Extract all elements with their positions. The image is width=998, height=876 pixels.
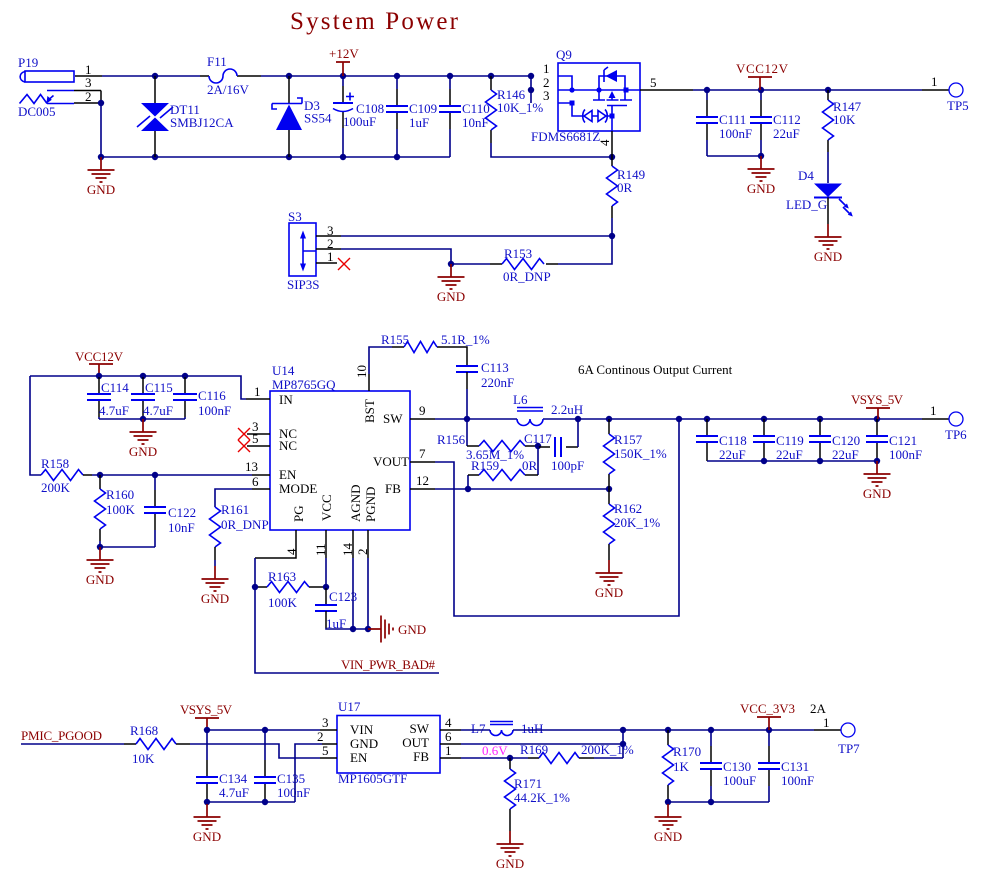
svg-text:2: 2 xyxy=(317,729,324,744)
power symbol +12V xyxy=(329,46,359,76)
resistor R153 xyxy=(490,246,558,284)
ground GND (S3) xyxy=(437,264,465,304)
junction dot R160/C122 gnd xyxy=(97,544,103,550)
wire R155 to C113 xyxy=(449,347,467,366)
svg-text:R160: R160 xyxy=(106,487,134,502)
svg-text:R156: R156 xyxy=(437,432,466,447)
capacitor C115 xyxy=(131,376,173,419)
svg-text:R159: R159 xyxy=(471,458,499,473)
junction dots output gnd rail xyxy=(761,458,880,464)
ground GND (R162) xyxy=(595,560,623,600)
svg-text:3: 3 xyxy=(85,75,92,90)
svg-text:C121: C121 xyxy=(889,433,917,448)
svg-text:100K: 100K xyxy=(106,502,136,517)
connector P19 xyxy=(18,55,102,119)
wire U17 GND pin down xyxy=(295,744,322,802)
capacitor C112 xyxy=(707,90,801,156)
svg-text:R158: R158 xyxy=(41,456,69,471)
svg-text:FDMS6681Z: FDMS6681Z xyxy=(531,129,600,144)
svg-text:U14: U14 xyxy=(272,363,295,378)
wire R161 to gnd xyxy=(214,560,216,566)
svg-text:14: 14 xyxy=(340,543,355,557)
wire R146 to Q9 gate xyxy=(491,143,612,157)
svg-text:VCC12V: VCC12V xyxy=(75,349,124,364)
resistor R157 xyxy=(604,419,667,489)
svg-text:F11: F11 xyxy=(207,54,227,69)
wire FB net xyxy=(435,488,609,490)
wire output cap ground rail xyxy=(707,460,877,462)
svg-text:44.2K_1%: 44.2K_1% xyxy=(514,790,570,805)
pin lead Q9 pin4 xyxy=(611,131,613,157)
svg-text:C118: C118 xyxy=(719,433,747,448)
svg-text:TP7: TP7 xyxy=(838,741,860,756)
junction dots 3V3 gnd rail xyxy=(665,799,714,805)
wire top +12V rail xyxy=(102,76,531,103)
wire AGND/PGND drops xyxy=(353,558,368,629)
svg-text:7: 7 xyxy=(419,446,426,461)
wire VCC12V rail to U14 IN xyxy=(30,376,246,399)
resistor R169 xyxy=(520,742,634,764)
svg-text:VIN_PWR_BAD#: VIN_PWR_BAD# xyxy=(341,657,436,672)
svg-text:10: 10 xyxy=(354,365,369,378)
wire MODE to R161 xyxy=(215,489,252,507)
ground GND (R170/C130) xyxy=(654,804,682,844)
svg-text:150K_1%: 150K_1% xyxy=(614,446,667,461)
power symbol VCC12V xyxy=(736,61,789,90)
svg-text:R155: R155 xyxy=(381,332,409,347)
wire PMIC_PGOOD to R168 xyxy=(21,743,124,745)
junction dots FB net xyxy=(465,486,612,492)
svg-text:C114: C114 xyxy=(101,380,129,395)
svg-text:2: 2 xyxy=(355,549,370,556)
wire S3 pin2 to ground xyxy=(341,249,490,264)
ground GND (R171) xyxy=(496,831,524,871)
capacitor C116 xyxy=(173,376,231,419)
capacitor C117 xyxy=(524,419,584,473)
ground GND (R161) xyxy=(201,566,229,606)
svg-text:VOUT: VOUT xyxy=(373,454,409,469)
svg-text:EN: EN xyxy=(279,467,297,482)
svg-text:C113: C113 xyxy=(481,360,509,375)
wire R149 to R153/S3 xyxy=(558,218,612,264)
svg-text:220nF: 220nF xyxy=(481,375,514,390)
svg-text:MP1605GTF: MP1605GTF xyxy=(338,771,407,786)
capacitor C111 xyxy=(696,90,752,156)
resistor R158 xyxy=(41,456,92,495)
svg-text:6: 6 xyxy=(445,729,452,744)
no-connect X on U14 pin3 xyxy=(238,428,250,440)
pin lead Q9 pin5 xyxy=(640,89,693,91)
svg-text:L6: L6 xyxy=(513,392,528,407)
junction dots VCC12V mid rail xyxy=(96,373,188,379)
svg-text:NC: NC xyxy=(279,438,297,453)
svg-text:100nF: 100nF xyxy=(198,403,231,418)
IC U14 MP8765GQ xyxy=(246,363,435,558)
svg-text:C122: C122 xyxy=(168,505,196,520)
svg-text:VIN: VIN xyxy=(350,722,374,737)
svg-text:SW: SW xyxy=(383,411,403,426)
svg-text:+12V: +12V xyxy=(329,46,359,61)
capacitor C108 (polarized 100uF) xyxy=(333,76,384,157)
ground GND (C134) xyxy=(193,804,221,844)
ground GND (R160) xyxy=(86,547,114,587)
junction dots 3V3 rail xyxy=(620,727,772,733)
svg-text:100K: 100K xyxy=(268,595,298,610)
resistor R159 xyxy=(468,446,538,489)
svg-text:FB: FB xyxy=(413,749,429,764)
svg-text:IN: IN xyxy=(279,392,293,407)
junction dot gate node xyxy=(609,154,615,160)
junction dots VCC12V node xyxy=(704,87,831,159)
svg-text:4.7uF: 4.7uF xyxy=(219,785,249,800)
wire S3 pin3 to gate node xyxy=(341,235,612,237)
svg-text:C112: C112 xyxy=(773,112,801,127)
ground GND (input caps) xyxy=(129,419,157,459)
svg-text:S3: S3 xyxy=(288,209,302,224)
svg-text:22uF: 22uF xyxy=(773,126,800,141)
svg-text:1uH: 1uH xyxy=(521,721,543,736)
svg-text:PMIC_PGOOD: PMIC_PGOOD xyxy=(21,728,102,743)
wire VCC pin to C123 xyxy=(325,558,327,588)
LED D4 LED_G xyxy=(786,152,853,224)
svg-text:11: 11 xyxy=(313,543,328,556)
wire R158 to EN xyxy=(92,474,252,476)
svg-text:C130: C130 xyxy=(723,759,751,774)
svg-text:C119: C119 xyxy=(776,433,804,448)
svg-text:100uF: 100uF xyxy=(343,114,376,129)
svg-text:C117: C117 xyxy=(524,431,552,446)
capacitor C110 xyxy=(439,76,490,157)
svg-text:100nF: 100nF xyxy=(889,447,922,462)
junction dot S3 pin3 tap xyxy=(609,233,615,239)
svg-text:R163: R163 xyxy=(268,569,296,584)
resistor R149 xyxy=(607,157,646,218)
junction dots AGND PGND xyxy=(350,626,371,632)
wire VCC12V rail to R158 xyxy=(30,376,41,475)
svg-text:DC005: DC005 xyxy=(18,104,56,119)
svg-text:1: 1 xyxy=(931,74,938,89)
wire Q9 output to TP5 xyxy=(693,89,922,91)
junction dots input rails xyxy=(98,73,534,160)
svg-text:4.7uF: 4.7uF xyxy=(99,403,129,418)
svg-text:C131: C131 xyxy=(781,759,809,774)
resistor R170 xyxy=(663,730,702,802)
svg-text:PG: PG xyxy=(291,505,306,522)
resistor R156 xyxy=(437,419,538,462)
ground GND (C111 C112) xyxy=(747,156,775,196)
svg-text:C120: C120 xyxy=(832,433,860,448)
svg-text:D4: D4 xyxy=(798,168,814,183)
svg-text:3: 3 xyxy=(322,715,329,730)
svg-text:VSYS_5V: VSYS_5V xyxy=(851,392,904,407)
svg-text:R168: R168 xyxy=(130,723,158,738)
svg-text:EN: EN xyxy=(350,750,368,765)
svg-text:VSYS_5V: VSYS_5V xyxy=(180,702,233,717)
svg-text:C116: C116 xyxy=(198,388,226,403)
test point TP5 xyxy=(931,74,969,113)
diode D3 SS54 xyxy=(272,76,332,157)
svg-text:12: 12 xyxy=(416,473,429,488)
capacitor C122 xyxy=(144,475,196,547)
no-connect X on S3 pin1 xyxy=(338,258,350,270)
inductor L6 xyxy=(513,392,583,426)
svg-text:10K: 10K xyxy=(833,112,856,127)
svg-text:U17: U17 xyxy=(338,699,361,714)
junction dot FB xyxy=(507,755,513,761)
svg-text:5: 5 xyxy=(322,743,329,758)
capacitor C123 xyxy=(315,589,368,631)
resistor R163 xyxy=(255,569,326,610)
junction dots SW/output rail xyxy=(464,416,880,422)
svg-text:4: 4 xyxy=(445,715,452,730)
svg-text:5: 5 xyxy=(252,431,259,446)
svg-text:3: 3 xyxy=(543,88,550,103)
svg-text:R169: R169 xyxy=(520,742,548,757)
svg-text:P19: P19 xyxy=(18,55,38,70)
fuse F11 xyxy=(200,54,250,97)
svg-text:1: 1 xyxy=(543,61,550,76)
svg-text:System Power: System Power xyxy=(290,8,459,35)
svg-text:2.2uH: 2.2uH xyxy=(551,402,583,417)
no-connect X on U14 pin5 xyxy=(238,440,250,452)
wire VOUT sense loop xyxy=(435,419,679,616)
svg-text:R171: R171 xyxy=(514,776,542,791)
junction dot S3 ground xyxy=(448,261,454,267)
resistor R155 xyxy=(381,332,490,353)
svg-text:10K: 10K xyxy=(132,751,155,766)
capacitor C114 xyxy=(87,376,129,419)
svg-text:22uF: 22uF xyxy=(832,447,859,462)
ground GND (input) xyxy=(87,157,115,197)
svg-text:C115: C115 xyxy=(145,380,173,395)
svg-text:0.6V: 0.6V xyxy=(482,743,508,758)
svg-text:1uF: 1uF xyxy=(326,616,346,631)
svg-text:AGND: AGND xyxy=(348,484,363,522)
svg-text:4: 4 xyxy=(597,139,612,146)
wire SW to TP7 rail xyxy=(461,729,814,731)
resistor R147 xyxy=(823,90,862,152)
svg-text:GND: GND xyxy=(350,736,378,751)
wire FB net xyxy=(461,757,623,759)
wire input cap ground rail xyxy=(99,418,185,420)
capacitor C109 xyxy=(386,76,437,157)
svg-text:2A/16V: 2A/16V xyxy=(207,82,250,97)
svg-text:5: 5 xyxy=(650,75,657,90)
svg-text:100pF: 100pF xyxy=(551,458,584,473)
capacitor C120 xyxy=(809,419,860,462)
svg-text:FB: FB xyxy=(385,481,401,496)
svg-text:OUT: OUT xyxy=(402,735,429,750)
svg-text:MODE: MODE xyxy=(279,481,317,496)
svg-text:R170: R170 xyxy=(673,744,701,759)
TVS diode DT11 xyxy=(137,76,234,157)
test point TP6 xyxy=(930,403,967,442)
wire SW node xyxy=(435,418,922,420)
svg-text:R157: R157 xyxy=(614,432,643,447)
svg-text:0R_DNP: 0R_DNP xyxy=(221,517,269,532)
resistor R161 xyxy=(210,502,269,560)
transistor Q9 FDMS6681Z xyxy=(531,47,640,144)
junction dots EN node xyxy=(97,472,158,478)
svg-text:13: 13 xyxy=(245,459,258,474)
svg-text:C134: C134 xyxy=(219,771,248,786)
svg-text:10nF: 10nF xyxy=(462,115,489,130)
svg-text:C111: C111 xyxy=(719,112,746,127)
switch S3 SIP3S xyxy=(287,209,341,292)
svg-text:SW: SW xyxy=(410,721,430,736)
resistor R168 xyxy=(124,723,190,766)
svg-text:VCC12V: VCC12V xyxy=(736,61,789,76)
svg-text:200K: 200K xyxy=(41,480,71,495)
power symbol VSYS_5V xyxy=(851,392,904,419)
svg-text:0R: 0R xyxy=(617,180,633,195)
svg-text:6: 6 xyxy=(252,474,259,489)
resistor R162 xyxy=(604,489,661,560)
power symbol VSYS_5V (bottom) xyxy=(180,702,233,730)
svg-text:BST: BST xyxy=(362,399,377,423)
junction dot OUT tie xyxy=(620,741,626,747)
svg-text:SIP3S: SIP3S xyxy=(287,277,320,292)
svg-text:4.7uF: 4.7uF xyxy=(143,403,173,418)
svg-text:6A Continous Output Current: 6A Continous Output Current xyxy=(578,362,733,377)
svg-text:22uF: 22uF xyxy=(776,447,803,462)
svg-text:1uF: 1uF xyxy=(409,115,429,130)
IC U17 MP1605GTF xyxy=(320,699,461,786)
wire P19 ground drop xyxy=(101,103,450,157)
capacitor C121 xyxy=(866,419,922,462)
svg-text:SS54: SS54 xyxy=(304,111,332,126)
svg-text:TP6: TP6 xyxy=(945,427,967,442)
wire OUT tie xyxy=(461,730,623,758)
power symbol VCC_3V3 xyxy=(740,701,795,730)
svg-text:2: 2 xyxy=(85,89,92,104)
wire bottom cap gnd rail xyxy=(207,801,295,803)
svg-text:MP8765GQ: MP8765GQ xyxy=(272,377,336,392)
svg-text:LED_G: LED_G xyxy=(786,197,827,212)
svg-text:SMBJ12CA: SMBJ12CA xyxy=(170,115,234,130)
svg-text:9: 9 xyxy=(419,403,426,418)
svg-text:2A: 2A xyxy=(810,701,827,716)
wire BST to R155 xyxy=(369,347,392,374)
svg-text:R153: R153 xyxy=(504,246,532,261)
wire PG to VIN_PWR_BAD xyxy=(255,530,296,558)
test point TP7 xyxy=(823,715,860,756)
svg-text:20K_1%: 20K_1% xyxy=(614,515,660,530)
junction dot cap gnd xyxy=(140,416,146,422)
svg-text:1: 1 xyxy=(930,403,937,418)
svg-text:10nF: 10nF xyxy=(168,520,195,535)
capacitor C113 xyxy=(456,360,514,419)
power symbol VCC12V (mid) xyxy=(75,349,124,376)
resistor R146 xyxy=(486,76,544,143)
inductor L7 xyxy=(471,721,543,736)
resistor R171 xyxy=(505,758,571,831)
capacitor C118 xyxy=(696,419,747,462)
svg-text:10K_1%: 10K_1% xyxy=(497,100,543,115)
svg-text:R161: R161 xyxy=(221,502,249,517)
capacitor C131 xyxy=(758,730,814,802)
svg-text:100nF: 100nF xyxy=(277,785,310,800)
svg-text:200K_1%: 200K_1% xyxy=(581,742,634,757)
wire R160 bottom xyxy=(100,541,155,547)
svg-text:1: 1 xyxy=(254,384,261,399)
svg-text:100nF: 100nF xyxy=(719,126,752,141)
svg-text:C135: C135 xyxy=(277,771,305,786)
svg-text:Q9: Q9 xyxy=(556,47,572,62)
svg-text:100nF: 100nF xyxy=(781,773,814,788)
resistor R160 xyxy=(95,475,136,541)
svg-text:VCC_3V3: VCC_3V3 xyxy=(740,701,795,716)
svg-text:GND: GND xyxy=(398,622,426,637)
svg-text:R162: R162 xyxy=(614,501,642,516)
svg-text:1: 1 xyxy=(445,743,452,758)
svg-text:5.1R_1%: 5.1R_1% xyxy=(441,332,490,347)
svg-text:100uF: 100uF xyxy=(723,773,756,788)
svg-text:0R: 0R xyxy=(522,458,538,473)
svg-text:VCC: VCC xyxy=(319,494,334,521)
svg-text:C109: C109 xyxy=(409,101,437,116)
ground GND (D4) xyxy=(814,224,842,264)
wire VSYS to VIN xyxy=(207,729,320,731)
svg-text:0R_DNP: 0R_DNP xyxy=(503,269,551,284)
wire 3V3 cap gnd rail xyxy=(668,801,769,803)
junction dots cap gnd rail xyxy=(204,799,268,805)
svg-text:1: 1 xyxy=(823,715,830,730)
junction dot node B xyxy=(535,443,541,449)
capacitor C135 xyxy=(254,730,310,802)
wire R168 to EN xyxy=(190,744,320,758)
capacitor C130 xyxy=(700,730,756,802)
svg-text:1K: 1K xyxy=(673,759,690,774)
svg-text:TP5: TP5 xyxy=(947,98,969,113)
junction dots R163 xyxy=(252,584,329,590)
capacitor C134 xyxy=(196,730,249,802)
svg-text:PGND: PGND xyxy=(363,487,378,522)
svg-text:C110: C110 xyxy=(462,101,490,116)
svg-text:L7: L7 xyxy=(471,721,486,736)
ground GND (output caps) xyxy=(863,461,891,501)
junction dots VIN rail xyxy=(204,727,268,733)
ground GND (U14 analog, right-facing) xyxy=(368,616,426,643)
capacitor C119 xyxy=(753,419,804,462)
svg-text:1: 1 xyxy=(327,249,334,264)
svg-text:22uF: 22uF xyxy=(719,447,746,462)
